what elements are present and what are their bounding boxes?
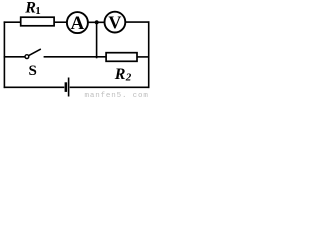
svg-text:1: 1 (35, 5, 41, 17)
svg-text:R: R (114, 66, 126, 83)
svg-text:V: V (108, 12, 121, 32)
svg-text:S: S (29, 63, 37, 79)
svg-text:A: A (71, 13, 85, 34)
svg-text:manfen5. com: manfen5. com (85, 92, 149, 99)
svg-text:2: 2 (125, 72, 132, 84)
